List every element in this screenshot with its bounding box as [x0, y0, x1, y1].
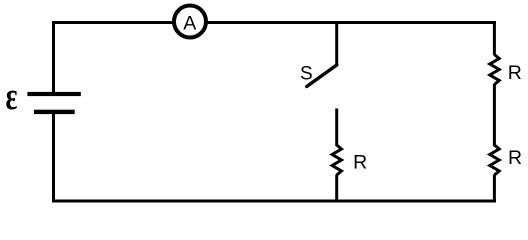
- label ε (EMF): [6, 76, 18, 118]
- resistor R1 (top right): [490, 55, 499, 85]
- svg-text:R: R: [508, 147, 522, 169]
- wire: battery positive terminal up to top-left corner: [52, 23, 55, 94]
- resistor R2 (bottom right): [490, 145, 499, 175]
- svg-text:R: R: [353, 152, 367, 174]
- switch S open blade: [307, 65, 337, 87]
- wire: battery negative terminal down to bottom-left corner: [52, 113, 55, 203]
- svg-text:S: S: [300, 64, 313, 85]
- wire: switch branch from top rail down to switch pivot: [335, 21, 338, 66]
- svg-text:ε: ε: [6, 76, 18, 118]
- wire: between resistor R1 and resistor R2: [493, 84, 496, 146]
- wire: top rail from top-left corner to top-right corner: [52, 21, 496, 24]
- wire: right branch top stub: [493, 21, 496, 55]
- svg-text:R: R: [508, 62, 522, 84]
- wire: resistor R3 down to bottom rail: [335, 175, 338, 202]
- svg-text:A: A: [183, 12, 196, 34]
- wire: switch lower terminal down to resistor R3: [335, 109, 338, 147]
- battery EMF source: short bottom plate: [34, 110, 75, 114]
- battery EMF source: long top plate: [27, 92, 80, 96]
- wire: bottom rail: [52, 200, 496, 203]
- resistor R3 (middle branch): [332, 145, 341, 175]
- wire: resistor R2 down to bottom-right corner: [493, 175, 496, 203]
- ammeter A: circle body: [174, 6, 206, 38]
